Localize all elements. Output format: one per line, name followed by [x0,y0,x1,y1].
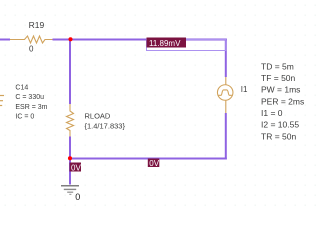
wire left lower (RLOAD to bottom node) [69,137,71,159]
svg-text:I2 = 10.55: I2 = 10.55 [261,120,299,130]
node B (bottom-left junction) [68,156,72,160]
svg-text:I1: I1 [241,85,248,94]
bias label frame [147,40,226,51]
wire left upper (node to RLOAD) [69,39,71,105]
resistor R19 [10,36,53,43]
svg-text:PER = 2ms: PER = 2ms [261,96,304,106]
svg-text:TF = 50n: TF = 50n [261,73,296,83]
svg-text:R19: R19 [29,20,45,30]
current source I1 [217,77,233,113]
resistor RLOAD [67,104,74,137]
svg-text:{1.4/17.833}: {1.4/17.833} [85,121,126,130]
ground [61,186,79,195]
svg-text:0V: 0V [149,159,159,168]
label C14 parameters [15,85,47,121]
svg-text:0V: 0V [71,163,81,172]
svg-text:0: 0 [29,45,34,54]
svg-text:0: 0 [75,192,80,202]
wire bottom [70,158,227,160]
I1 parameter list [261,61,304,141]
wire ground stub [69,159,71,185]
wire R19 to junction (top-left node) [53,39,71,41]
svg-text:C = 330u: C = 330u [15,94,44,101]
capacitor C14 (clipped at left edge) [0,96,4,106]
wire right upper (corner to I1) [225,39,227,78]
node A (top-left junction) [68,37,72,41]
wire top (node to top-right corner) [70,39,227,41]
svg-text:C14: C14 [15,85,28,92]
wire left of R19 [0,39,10,41]
voltage probe 11.89mV [147,38,187,48]
voltage probe 0V (left) [70,163,82,172]
wire right lower (I1 to bottom corner) [225,113,227,160]
voltage probe 0V (right) [148,159,160,168]
svg-text:IC = 0: IC = 0 [15,113,34,120]
svg-text:TD = 5m: TD = 5m [261,61,294,71]
svg-text:11.89mV: 11.89mV [149,39,181,48]
svg-text:TR = 50n: TR = 50n [261,131,296,141]
svg-text:PW = 1ms: PW = 1ms [261,85,300,95]
svg-text:ESR = 3m: ESR = 3m [15,104,47,111]
svg-text:RLOAD: RLOAD [85,112,111,121]
svg-text:I1 = 0: I1 = 0 [261,108,283,118]
